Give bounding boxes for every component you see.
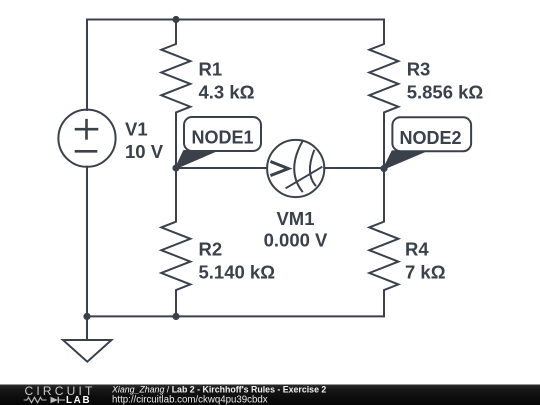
svg-text:VM1: VM1 <box>276 208 314 229</box>
wire VM1 right lead <box>324 167 384 169</box>
svg-text:10 V: 10 V <box>125 141 164 162</box>
svg-text:5.140 kΩ: 5.140 kΩ <box>199 262 276 283</box>
node dot NODE1 junction <box>172 164 179 171</box>
svg-text:R1: R1 <box>199 59 223 80</box>
svg-text:0.000 V: 0.000 V <box>264 230 328 251</box>
node dot NODE2 junction <box>380 165 387 172</box>
resistor R2 <box>161 168 190 316</box>
resistor R1 <box>161 20 190 169</box>
svg-text:5.856 kΩ: 5.856 kΩ <box>407 82 484 103</box>
svg-text:Xiang_Zhang / Lab 2 - Kirchhof: Xiang_Zhang / Lab 2 - Kirchhoff's Rules … <box>111 384 326 394</box>
svg-text:NODE2: NODE2 <box>400 128 462 148</box>
svg-text:4.3 kΩ: 4.3 kΩ <box>199 82 255 103</box>
voltmeter VM1 <box>267 140 324 197</box>
svg-text:R2: R2 <box>199 239 223 260</box>
svg-text:R3: R3 <box>407 59 431 80</box>
resistor R4 <box>369 168 398 316</box>
node NODE2 callout <box>384 117 471 168</box>
svg-text:R4: R4 <box>405 239 429 260</box>
svg-text:http://circuitlab.com/ckwq4pu3: http://circuitlab.com/ckwq4pu39cbdx <box>112 394 268 405</box>
node dot top junction <box>172 16 179 23</box>
wire V1 bottom lead <box>86 167 88 317</box>
footer bar <box>0 385 540 405</box>
ground <box>63 316 112 361</box>
node dot bottom left junction <box>83 313 90 320</box>
resistor R3 <box>369 20 398 169</box>
wire top rail <box>87 19 384 21</box>
svg-text:LAB: LAB <box>66 395 91 405</box>
wire VM1 left lead <box>176 167 267 169</box>
logo resistor symbol <box>24 397 47 402</box>
svg-text:7 kΩ: 7 kΩ <box>405 262 446 283</box>
node dot R2 bottom junction <box>172 313 179 320</box>
wire bottom rail <box>87 315 384 317</box>
node NODE1 callout <box>176 117 261 168</box>
logo diode symbol <box>51 397 66 403</box>
voltage source V1 <box>58 110 115 167</box>
svg-text:NODE1: NODE1 <box>192 128 254 148</box>
svg-text:V1: V1 <box>125 119 148 140</box>
wire V1 top lead <box>86 20 88 111</box>
